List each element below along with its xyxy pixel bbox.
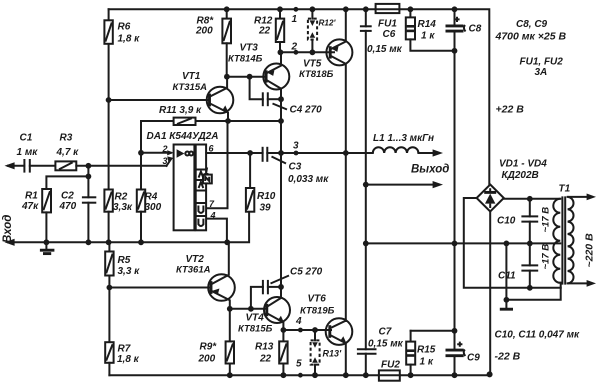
svg-text:2: 2 (291, 42, 298, 53)
svg-text:C8: C8 (469, 24, 482, 35)
svg-text:T1: T1 (559, 184, 571, 195)
transistor VT1 (207, 77, 234, 121)
svg-text:3: 3 (293, 141, 299, 152)
resistor R13' dashed (311, 330, 320, 375)
transistor VT3 (263, 52, 289, 153)
resistor R9 (226, 341, 234, 375)
junction C8 top rail (452, 6, 458, 12)
svg-text:C1: C1 (20, 133, 33, 144)
wire pin2 stub (141, 152, 171, 154)
wire primary bottom terminal (568, 280, 596, 287)
resistor R2 (104, 190, 112, 243)
capacitor C3 (263, 147, 346, 162)
op-amp amplifier triangle and infinity symbol (177, 149, 194, 158)
transformer T1 secondary winding (553, 199, 560, 283)
junction R13' top (312, 327, 318, 333)
junction C4 right (278, 96, 284, 102)
svg-text:C2: C2 (61, 191, 74, 202)
node 3 dot (294, 151, 299, 156)
capacitor C5 (251, 280, 281, 309)
junction pin4 on ground rail (224, 239, 230, 245)
svg-text:КТ814Б: КТ814Б (228, 54, 263, 65)
svg-text:1 мк: 1 мк (17, 147, 39, 158)
pin2 arrowhead (167, 150, 174, 155)
junction x454 y330 (452, 328, 458, 334)
junction C5 left (248, 306, 254, 312)
junction R10 top (247, 150, 253, 156)
fuse FU1 (376, 4, 400, 13)
svg-text:1: 1 (204, 166, 209, 176)
svg-text:470: 470 (59, 201, 77, 212)
junction output return (363, 182, 369, 188)
svg-text:R5: R5 (118, 255, 131, 266)
svg-text:VT5: VT5 (303, 59, 322, 70)
svg-text:R14: R14 (418, 19, 437, 30)
resistor R5 (105, 242, 113, 287)
svg-text:3,3к: 3,3к (113, 202, 133, 213)
svg-text:КТ315А: КТ315А (173, 82, 208, 93)
wire ground rail with pin4 (8, 212, 249, 243)
junction R15 bottom (408, 372, 414, 378)
capacitor C4 (250, 77, 281, 107)
svg-text:FU1: FU1 (378, 19, 397, 30)
op-amp pin1 correction box (203, 175, 212, 184)
svg-text:КТ818Б: КТ818Б (299, 69, 334, 80)
junction R13 bottom (281, 372, 287, 378)
node 5 dot (298, 373, 303, 378)
svg-text:3: 3 (163, 156, 168, 166)
junction VT1 emitter (225, 118, 231, 124)
svg-text:КД202В: КД202В (502, 170, 539, 181)
wire bridge AC left (464, 198, 561, 288)
capacitor C2 (82, 176, 96, 242)
resistor R1 (42, 189, 51, 242)
junction signal at output vertical (343, 150, 349, 156)
svg-text:1,8 к: 1,8 к (117, 354, 140, 365)
svg-text:FU1, FU2: FU1, FU2 (520, 57, 564, 68)
transformer T1 primary winding (568, 197, 574, 283)
svg-text:L1 1...3 мкГн: L1 1...3 мкГн (373, 133, 434, 144)
C4 label pointer (273, 104, 288, 110)
svg-text:FU2: FU2 (381, 360, 400, 371)
wire op-amp pin4 bracket (206, 219, 227, 243)
svg-text:R9*: R9* (200, 342, 218, 353)
svg-text:Выход: Выход (411, 164, 449, 176)
transistor VT6 (326, 318, 353, 375)
resistor R10 (246, 153, 254, 212)
svg-text:0,15 мк: 0,15 мк (368, 339, 404, 350)
svg-text:DA1 К544УД2А: DA1 К544УД2А (147, 131, 219, 142)
wire op-amp pin7 supply drop (206, 121, 227, 208)
resistor R6 (104, 9, 112, 189)
wire primary top terminal (568, 194, 596, 201)
wire VT4 base (230, 308, 266, 310)
svg-text:47к: 47к (21, 201, 39, 212)
resistor R12' dashed (308, 9, 317, 52)
svg-text:0,15 мк: 0,15 мк (367, 44, 403, 55)
svg-text:200: 200 (195, 26, 213, 37)
junction C5 right (278, 284, 284, 290)
junction R12' bottom (310, 49, 316, 55)
svg-text:3,3 к: 3,3 к (118, 266, 141, 277)
junction C4 tap (247, 74, 253, 80)
svg-text:300: 300 (145, 202, 162, 213)
svg-text:КТ819Б: КТ819Б (300, 306, 335, 317)
wire R1-C2 tap (46, 166, 88, 189)
wire -22V bottom rail (109, 212, 490, 376)
svg-text:КТ815Б: КТ815Б (238, 324, 273, 335)
wire R15 top to midline (411, 330, 455, 332)
fuse FU2 (379, 370, 400, 380)
svg-text:C8, C9: C8, C9 (516, 19, 548, 30)
junction C3 at VT3 emitter line (278, 150, 284, 156)
svg-text:VT3: VT3 (240, 43, 259, 54)
junction R5 R7 VT2 base (107, 285, 113, 291)
junction R12 top rail (277, 6, 283, 12)
junction C8 bottom (452, 48, 458, 54)
ground symbol right (500, 300, 513, 309)
junction ground tap (504, 297, 510, 303)
ground symbol input (40, 242, 55, 253)
svg-text:R15: R15 (417, 345, 436, 356)
svg-text:R11 3,9 к: R11 3,9 к (159, 105, 202, 116)
svg-text:C3: C3 (289, 162, 302, 173)
op-amp U cell glyphs (198, 206, 203, 227)
svg-text:3А: 3А (535, 67, 548, 78)
resistor R14 (406, 9, 455, 51)
wire +22V top rail (109, 9, 490, 184)
svg-text:+22 В: +22 В (496, 104, 525, 116)
junction bottom rail corner (487, 371, 493, 377)
svg-text:C6: C6 (383, 29, 396, 40)
resistor R12 (276, 9, 284, 52)
svg-text:C10, C11 0,047 мк: C10, C11 0,047 мк (495, 330, 580, 341)
svg-text:VT2: VT2 (186, 254, 205, 265)
junction center tap midrail (504, 241, 510, 247)
junction R2 bottom (106, 239, 112, 245)
junction VT3 base node (224, 74, 230, 80)
capacitor C10 (521, 199, 538, 244)
capacitor C1 (24, 159, 55, 173)
junction VT6 emitter bottom (343, 372, 349, 378)
wire R11 right to VT3 emitter line (196, 120, 282, 122)
svg-text:C9: C9 (467, 353, 480, 364)
svg-text:2: 2 (162, 144, 168, 154)
svg-text:4,7 к: 4,7 к (56, 147, 80, 158)
svg-text:~17 В: ~17 В (541, 207, 552, 233)
svg-text:Вход: Вход (2, 215, 14, 243)
input arrow (5, 162, 25, 169)
junction C11 bottom (527, 285, 533, 291)
svg-text:VT4: VT4 (246, 313, 265, 324)
junction R1-C2 (86, 174, 92, 180)
resistor R11 (174, 118, 196, 125)
resistor R3 (55, 161, 166, 170)
svg-text:4: 4 (210, 211, 216, 221)
wire R11 left to pin2 and R4 (141, 121, 174, 190)
node 1 dot (294, 7, 299, 12)
transformer T1 core (562, 196, 565, 284)
junction pin2 (138, 150, 144, 156)
junction C10 top (527, 196, 533, 202)
capacitor C11 (521, 243, 538, 287)
svg-text:-22 В: -22 В (495, 351, 521, 363)
transistor VT2 (208, 242, 235, 341)
resistor R4 (137, 190, 145, 243)
svg-text:39: 39 (260, 203, 272, 214)
junction R6-VT1 (106, 97, 112, 103)
svg-text:R13': R13' (323, 349, 343, 359)
junction R14 top rail (408, 6, 414, 12)
svg-text:C5 270: C5 270 (290, 267, 323, 278)
svg-text:R10: R10 (257, 191, 276, 202)
junction C7 bottom (363, 372, 369, 378)
node 4 dot (298, 328, 303, 333)
svg-text:200: 200 (198, 354, 216, 365)
svg-text:C11: C11 (498, 271, 516, 282)
C5 label pointer (271, 276, 290, 284)
wire VT5 base (280, 51, 334, 53)
svg-text:22: 22 (259, 354, 272, 365)
junction R4 bottom (138, 239, 144, 245)
svg-text:R6: R6 (118, 22, 131, 33)
capacitor C8 (446, 9, 466, 350)
junction VT5 base node (278, 49, 284, 55)
resistor R8 (222, 9, 231, 76)
junction R9 bottom (227, 372, 233, 378)
svg-text:VD1 - VD4: VD1 - VD4 (499, 159, 547, 170)
ground rail arrowhead (5, 239, 15, 246)
bridge rectifier VD1-VD4 (477, 185, 504, 212)
svg-text:КТ361А: КТ361А (176, 265, 211, 276)
wire VT6 base (283, 329, 331, 331)
junction R3 out (86, 163, 92, 169)
svg-text:R1: R1 (25, 191, 38, 202)
svg-text:C4 270: C4 270 (290, 105, 323, 116)
transistor VT4 (264, 153, 290, 330)
junction R13' bottom (312, 372, 318, 378)
capacitor C9 (446, 342, 466, 376)
wire bridge AC right to secondary top (504, 198, 561, 200)
resistor R13 (279, 330, 287, 375)
wire output return arrow (366, 181, 443, 188)
junction R12' top rail (310, 6, 316, 12)
wire VT2 base (109, 287, 211, 289)
svg-text:0,033 мк: 0,033 мк (288, 174, 329, 185)
resistor R7 (105, 288, 113, 376)
svg-text:~220 В: ~220 В (584, 233, 596, 268)
capacitor C7 (357, 243, 377, 375)
junction midrail x454 (452, 241, 458, 247)
wire VT3 base (227, 76, 265, 78)
svg-text:22: 22 (258, 26, 271, 37)
junction VT4 base node (227, 306, 233, 312)
wire center tap to ground (506, 243, 560, 299)
transistor VT5 (326, 9, 352, 321)
svg-text:VT1: VT1 (182, 71, 201, 82)
wire pin3 lead (167, 159, 172, 166)
svg-text:1 к: 1 к (420, 357, 434, 368)
junction C6 top rail (363, 6, 369, 12)
node 2 dot (294, 50, 299, 55)
junction R11 wire at x281 (278, 118, 284, 124)
svg-text:R13: R13 (255, 342, 274, 353)
junction R6 top rail R8 (224, 6, 230, 12)
pin3 arrowhead (167, 156, 174, 161)
junction C2 bottom (86, 239, 92, 245)
op-amp DA1 right column (196, 145, 206, 231)
svg-text:1: 1 (292, 14, 298, 25)
wire midpoint rail (366, 242, 561, 244)
wire op-amp pin6 output (206, 152, 262, 154)
capacitor C6 (360, 9, 372, 243)
svg-text:4700 мк ×25 В: 4700 мк ×25 В (495, 31, 567, 43)
junction VT4 emitter R13 (281, 327, 287, 333)
svg-text:C7: C7 (379, 327, 392, 338)
op-amp DA1 main box (174, 145, 195, 231)
junction C9 bottom (452, 372, 458, 378)
svg-text:R4: R4 (145, 192, 158, 203)
svg-text:R7: R7 (118, 344, 131, 355)
svg-text:4: 4 (295, 316, 302, 327)
op-amp FC cell glyphs (199, 172, 204, 188)
junction VT5 top rail (343, 6, 349, 12)
svg-text:~17 В: ~17 В (541, 244, 552, 270)
svg-text:1,8 к: 1,8 к (118, 34, 141, 45)
junction C10 bottom midrail (527, 241, 533, 247)
inductor L1 (346, 147, 443, 156)
junction R1 bottom (44, 239, 50, 245)
C3 label pointer (272, 157, 287, 164)
svg-text:C10: C10 (497, 216, 516, 227)
svg-text:VT6: VT6 (308, 294, 327, 305)
svg-text:R2: R2 (115, 192, 128, 203)
svg-text:5: 5 (296, 359, 302, 370)
svg-text:R3: R3 (60, 133, 73, 144)
svg-text:1 к: 1 к (421, 31, 435, 42)
svg-text:R12': R12' (319, 19, 337, 28)
junction midrail left (363, 241, 369, 247)
resistor R15 (406, 331, 415, 375)
wire VT1 base (109, 99, 210, 101)
